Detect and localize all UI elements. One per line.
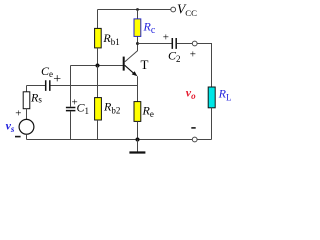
node base junction — [96, 64, 100, 68]
node junction Rc/top-rail — [136, 8, 139, 11]
label - of output — [191, 127, 195, 129]
resistor Rb2 — [95, 98, 102, 120]
resistor Rs — [23, 92, 30, 109]
wire source to ground rail — [26, 134, 28, 139]
wire collector to C2 — [138, 43, 172, 45]
svg-text:RL: RL — [218, 86, 232, 102]
wire Rb1 bottom lead — [97, 48, 99, 66]
svg-text:+: + — [15, 108, 21, 120]
wire Rc top lead — [137, 10, 139, 19]
svg-text:T: T — [141, 57, 149, 72]
transistor T emitter arrow — [132, 71, 138, 76]
transistor T emitter line — [125, 65, 135, 74]
svg-text:Rb1: Rb1 — [102, 31, 119, 47]
wire C2 to output terminal — [177, 43, 192, 45]
terminal output - — [192, 137, 197, 142]
svg-text:Rs: Rs — [30, 90, 42, 104]
resistor Rb1 — [95, 28, 102, 48]
capacitor C2 plates — [172, 38, 176, 49]
svg-text:vo: vo — [186, 85, 196, 101]
wire RL bottom lead — [211, 108, 213, 140]
svg-text:vs: vs — [6, 119, 15, 134]
source vs circle — [19, 119, 34, 134]
wire top rail VCC — [98, 9, 171, 11]
wire Rc bottom lead / collector — [125, 36, 138, 61]
resistor Rc — [134, 19, 141, 37]
wire C1 branch from base — [70, 66, 72, 107]
resistor Re — [134, 102, 141, 122]
transistor T base bar — [123, 57, 125, 71]
capacitor C1 — [66, 108, 76, 111]
svg-text:+: + — [190, 48, 196, 60]
wire bottom rail — [27, 139, 212, 141]
label - of source — [15, 136, 21, 138]
svg-text:Re: Re — [142, 103, 154, 119]
wire Rb1 top lead — [97, 10, 99, 29]
wire output top to RL — [197, 44, 211, 88]
ground bar — [129, 151, 145, 153]
wire source corner to Rs — [26, 86, 28, 92]
svg-text:C2: C2 — [168, 48, 181, 64]
svg-text:Rc: Rc — [143, 19, 156, 36]
svg-text:VCC: VCC — [177, 1, 197, 18]
terminal VCC — [171, 7, 176, 12]
node ground junction — [136, 138, 140, 142]
capacitor Ce plates — [46, 80, 50, 91]
wire Re bottom lead — [137, 121, 139, 139]
ground stub — [137, 140, 139, 152]
wire input Ce to emitter — [51, 85, 138, 87]
svg-text:Ce: Ce — [41, 64, 53, 79]
svg-text:+: + — [163, 31, 169, 43]
wire emitter lead down — [137, 76, 139, 101]
wire Rb2 top lead — [97, 66, 99, 98]
node collector junction — [136, 42, 139, 45]
wire base — [71, 65, 123, 67]
resistor RL — [208, 87, 215, 108]
wire Rs to source — [26, 109, 28, 120]
svg-text:+: + — [53, 72, 61, 87]
wire C1 bottom lead — [70, 111, 72, 139]
wire Rb2 bottom lead — [97, 120, 99, 140]
terminal output + — [192, 41, 197, 46]
svg-text:C1: C1 — [77, 101, 90, 117]
wire input from Ce left — [27, 85, 46, 87]
svg-text:Rb2: Rb2 — [103, 100, 120, 116]
